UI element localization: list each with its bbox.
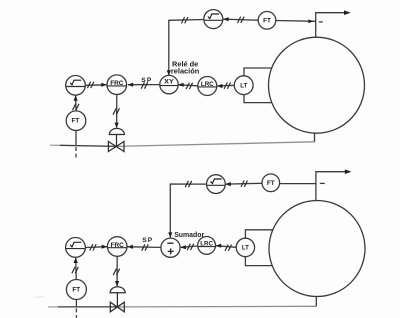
svg-text:SP: SP [142, 237, 153, 244]
svg-text:Sumador: Sumador [174, 232, 204, 239]
svg-text:FT: FT [72, 287, 81, 294]
svg-text:SP: SP [141, 77, 152, 84]
svg-text:FRC: FRC [110, 80, 123, 87]
svg-text:FT: FT [267, 180, 276, 187]
svg-text:LRC: LRC [200, 240, 213, 247]
svg-text:LT: LT [240, 82, 248, 89]
svg-text:XY: XY [164, 79, 174, 86]
svg-text:relación: relación [171, 69, 199, 76]
svg-text:Relé de: Relé de [172, 61, 198, 68]
svg-text:FT: FT [263, 18, 272, 25]
svg-text:FT: FT [72, 117, 81, 124]
svg-text:LRC: LRC [201, 81, 214, 88]
svg-text:FRC: FRC [111, 242, 124, 249]
svg-text:LT: LT [242, 245, 250, 252]
